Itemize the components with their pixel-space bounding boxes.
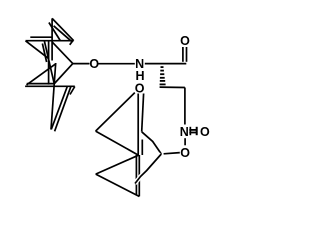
wire (96, 131, 139, 155)
svg-text:O: O (200, 125, 210, 139)
wire (27, 83, 54, 85)
bond O-cage2 (164, 153, 180, 154)
bond O-N (99, 63, 135, 65)
wire (51, 63, 56, 130)
wire (54, 26, 72, 42)
labels (89, 34, 210, 160)
aldehyde C=O (182, 47, 184, 62)
wire (135, 154, 161, 184)
wire (30, 36, 52, 38)
nitro N-O (184, 138, 186, 145)
bond cage-O (73, 63, 90, 65)
wire (49, 23, 61, 42)
wire (42, 44, 46, 63)
wire (26, 40, 74, 42)
nitro N=O (189, 129, 197, 131)
wire (55, 86, 71, 131)
chain to nitro (160, 86, 185, 88)
wire (141, 140, 143, 156)
wire (137, 94, 139, 156)
wire (52, 42, 73, 64)
wire (96, 174, 140, 196)
wire (142, 94, 144, 132)
wire (70, 87, 75, 95)
svg-text:O: O (180, 146, 190, 160)
wire (48, 41, 50, 85)
wire (51, 86, 67, 129)
wire (44, 41, 54, 84)
wire (26, 41, 49, 59)
wire (51, 18, 53, 60)
wire (138, 155, 140, 196)
hash wedge (160, 66, 166, 85)
bond N-chain (145, 63, 187, 65)
wire (142, 132, 162, 154)
wire (54, 64, 73, 84)
svg-text:N: N (180, 125, 189, 139)
svg-text:O: O (180, 34, 190, 48)
wire (27, 64, 56, 85)
svg-text:O: O (135, 81, 145, 95)
wire (135, 155, 137, 195)
wire (25, 85, 75, 87)
svg-text:O: O (89, 57, 99, 71)
nitro plus-sign bars (190, 127, 198, 135)
wire (52, 18, 74, 40)
wire (96, 155, 139, 174)
wire (96, 93, 135, 132)
wire (70, 41, 73, 45)
